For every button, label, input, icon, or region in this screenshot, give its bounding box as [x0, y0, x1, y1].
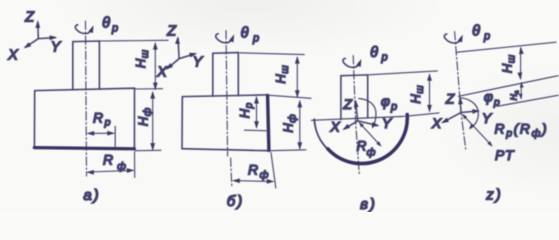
label PT (g): [495, 147, 515, 163]
label Z (v): [342, 96, 352, 112]
extension line shank-top right (v): [369, 71, 437, 75]
thick cutting edge (bottom) a: [34, 148, 134, 149]
svg-text:р: р: [493, 97, 500, 109]
svg-text:а): а): [83, 187, 100, 204]
dimension Hsh (v): [427, 73, 432, 112]
svg-text:На: На: [509, 90, 521, 100]
svg-text:Rр(Rф): Rр(Rф): [495, 121, 549, 140]
rotation symbol v: [343, 58, 364, 67]
label Hf (b) rotated: [281, 114, 299, 133]
svg-text:z): z): [485, 187, 503, 204]
svg-text:Z: Z: [24, 10, 35, 26]
thick cutting edge (ball right) v: [328, 115, 408, 164]
rotation symbol b: [216, 34, 237, 43]
svg-text:φ: φ: [381, 93, 390, 109]
svg-text:X: X: [156, 65, 168, 81]
label X (v): [329, 119, 340, 135]
label theta-p (b): [241, 26, 260, 45]
extension line flat right (v): [405, 113, 439, 116]
label theta-p (v): [370, 45, 388, 64]
label theta-p (g): [472, 24, 490, 43]
svg-text:R: R: [93, 110, 103, 126]
svg-text:Нш: Нш: [133, 49, 151, 68]
rotation symbol a: [75, 24, 95, 33]
shank b: [213, 53, 239, 97]
svg-text:Нр: Нр: [237, 102, 255, 118]
label Rf (b): [248, 162, 269, 182]
label Rp (a): [93, 110, 111, 129]
angle phi-p arc (v): [359, 99, 377, 130]
dimension Rf (a): dim line with arrows: [86, 168, 134, 175]
dimension Rf (b): right extension: [271, 153, 276, 189]
axis extension for Rf (b): [231, 158, 232, 187]
svg-text:ф: ф: [367, 147, 376, 159]
top line g: [456, 42, 556, 52]
caption b): [227, 193, 244, 210]
label Rf (a): [103, 152, 126, 173]
svg-text:X: X: [431, 115, 442, 131]
label phi-p (v): [381, 93, 397, 113]
body b: [182, 95, 267, 151]
small dimension Ha (g): [519, 82, 524, 100]
caption v): [360, 196, 377, 213]
svg-text:θ: θ: [472, 24, 480, 40]
svg-text:в): в): [360, 196, 377, 212]
ball outline v: [314, 114, 407, 162]
svg-text:ф: ф: [117, 161, 126, 173]
svg-text:Нш: Нш: [408, 85, 426, 104]
label Y (g): [482, 110, 493, 126]
svg-text:Y: Y: [482, 110, 493, 126]
label Rp(Rf) (g): [495, 121, 549, 140]
shank a: [73, 41, 100, 90]
label X (a): [7, 48, 19, 64]
svg-text:θ: θ: [102, 16, 110, 32]
radius Rf arrow (v): [357, 121, 383, 148]
svg-text:Нф: Нф: [136, 107, 154, 126]
label Rf (v): [357, 139, 376, 159]
ball flat line v: [311, 116, 403, 120]
label Hsh (g) rotated: [500, 54, 518, 73]
svg-text:Z: Z: [445, 91, 455, 107]
angle phi-p arc (g): [460, 98, 479, 130]
rotation symbol g: [444, 34, 465, 43]
label Hf (a) rotated: [136, 107, 154, 126]
shank v: [341, 75, 368, 120]
label Y (b): [193, 55, 204, 71]
caption a): [83, 187, 100, 204]
svg-text:р: р: [104, 117, 111, 129]
svg-text:р: р: [380, 52, 387, 64]
svg-text:θ: θ: [241, 26, 249, 42]
dimension Hsh (b): [295, 56, 300, 98]
dimension Hsh (g): [517, 46, 523, 80]
extension line body-top right (a): [136, 88, 163, 90]
dimension Hp (b): [254, 96, 259, 129]
caption g): [485, 187, 503, 204]
svg-text:R: R: [357, 139, 367, 154]
coordinate triad g: [440, 96, 480, 125]
svg-text:Y: Y: [51, 40, 62, 56]
label Z (g): [445, 91, 455, 107]
dimension Hsh (a): [153, 42, 158, 90]
lower line g: [497, 95, 558, 106]
coordinate triad b: [164, 36, 197, 71]
label Hp (b) rotated: [237, 102, 255, 118]
label Z (b): [166, 24, 177, 40]
axis g (dash-dot): [455, 32, 466, 150]
axis b (dash-dot): [226, 31, 228, 157]
extension line body-bottom right (a): [136, 149, 162, 151]
label X (b): [156, 65, 168, 81]
svg-text:р: р: [390, 101, 397, 113]
svg-text:Y: Y: [193, 55, 204, 71]
svg-text:R: R: [103, 152, 113, 168]
label Hsh (v) rotated: [408, 85, 426, 104]
svg-text:ф: ф: [260, 169, 269, 181]
svg-text:X: X: [7, 48, 19, 64]
svg-text:X: X: [329, 119, 340, 135]
dimension Hf (b): [297, 100, 302, 150]
extension line body-top right (b): [268, 95, 311, 98]
label Hsh (b) rotated: [273, 65, 291, 84]
coordinate triad a: [22, 20, 57, 50]
svg-text:Нш: Нш: [273, 65, 291, 84]
label Y (a): [51, 40, 62, 56]
dimension Rf (a): extension line: [134, 152, 136, 178]
extension line shank-top right (b): [240, 53, 304, 55]
extension line body-bottom right (b): [270, 149, 307, 152]
svg-text:Z: Z: [166, 24, 177, 40]
label Ha (g) rotated: [509, 90, 521, 100]
insert edge tick a: [114, 126, 116, 148]
axis a (dash-dot): [86, 21, 87, 176]
svg-text:р: р: [252, 33, 259, 45]
svg-text:РТ: РТ: [495, 147, 515, 163]
label X (g): [431, 115, 442, 131]
dimension Rf (b): dim line: [232, 178, 274, 184]
extension line shank-top right (a): [101, 39, 169, 42]
body a: [34, 88, 134, 148]
label theta-p (a): [102, 16, 118, 35]
label phi-p (g): [484, 89, 500, 109]
label Y (v): [382, 115, 393, 131]
middle line g: [459, 76, 559, 97]
radius line Rp(Rf) (g): [460, 112, 494, 148]
dimension Hf (a): [150, 91, 155, 151]
dimension Rp (a): [87, 131, 115, 136]
svg-text:Нф: Нф: [281, 114, 299, 133]
svg-text:φ: φ: [484, 89, 493, 105]
svg-text:Нш: Нш: [500, 54, 518, 73]
label Hsh (a) rotated: [133, 49, 151, 68]
Hp lower tick (b): [245, 129, 267, 132]
svg-text:р: р: [483, 31, 490, 43]
svg-text:Z: Z: [342, 96, 352, 112]
axis v (dash-dot): [353, 56, 359, 177]
svg-text:R: R: [248, 162, 258, 178]
svg-text:б): б): [227, 193, 244, 210]
thick cutting edge (right) b: [268, 95, 269, 150]
coordinate triad v: [341, 99, 380, 132]
svg-text:θ: θ: [370, 45, 378, 61]
label Z (a): [24, 10, 35, 26]
svg-text:р: р: [111, 23, 118, 35]
